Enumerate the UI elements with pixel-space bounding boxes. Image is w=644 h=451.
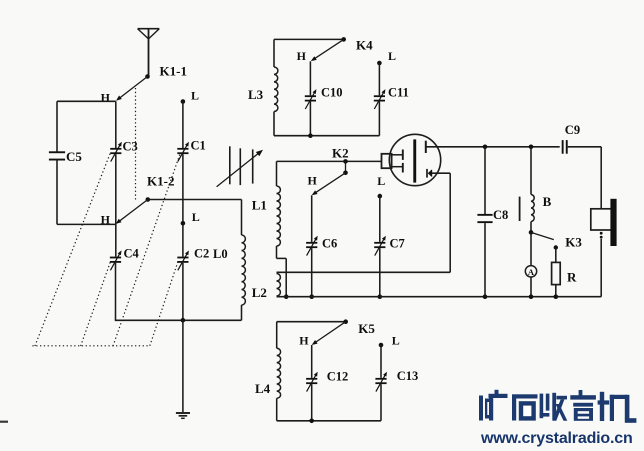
capacitor C9 [562, 140, 564, 154]
switch K4 [341, 37, 346, 42]
svg-text:L4: L4 [255, 381, 271, 396]
wire [277, 321, 346, 323]
watermark char yin [579, 390, 583, 396]
wire [380, 384, 382, 421]
node junction [529, 145, 534, 150]
capacitor C12 [306, 372, 318, 392]
svg-text:H: H [101, 91, 111, 105]
svg-text:C11: C11 [388, 86, 409, 100]
wire [274, 38, 344, 40]
watermark char ji [600, 392, 604, 421]
svg-text:L3: L3 [248, 87, 264, 102]
capacitor C6 [306, 236, 318, 256]
node L [378, 194, 383, 199]
tube grid box [382, 154, 392, 168]
capacitor C1 [177, 142, 189, 162]
antenna [138, 28, 160, 30]
node junction [309, 294, 314, 299]
speaker terminal dots [600, 232, 603, 235]
wire [600, 239, 602, 297]
svg-text:L0: L0 [213, 247, 228, 261]
wire [311, 248, 313, 297]
wire [600, 147, 602, 209]
node junction [554, 294, 559, 299]
speaker [591, 209, 612, 230]
gang dashed diagonal to C3 [35, 153, 111, 347]
capacitor C13 [375, 372, 387, 392]
wire [277, 271, 451, 273]
wire [57, 100, 116, 102]
wire [115, 154, 117, 256]
svg-text:R: R [567, 270, 577, 285]
wire [426, 146, 560, 148]
wire [277, 420, 381, 422]
tube V1 envelope [389, 134, 440, 185]
wire [274, 135, 379, 137]
tube plate pin [425, 141, 427, 153]
switch K5 [343, 319, 348, 324]
wire [378, 63, 380, 95]
switch K3 [531, 232, 554, 239]
resistor R [552, 262, 561, 284]
wire [449, 173, 451, 272]
svg-text:C13: C13 [397, 369, 419, 383]
svg-text:K3: K3 [565, 235, 582, 250]
wire [568, 146, 602, 148]
svg-text:C8: C8 [493, 208, 508, 222]
gang dashed diagonal to C4 [81, 262, 111, 347]
wire [277, 160, 382, 162]
node junction [483, 294, 488, 299]
wire [115, 263, 117, 320]
svg-text:H: H [308, 174, 318, 188]
gang link K1-1/K1-2 dashed [135, 88, 137, 202]
wire [484, 147, 486, 215]
node junction [378, 294, 383, 299]
wire [285, 258, 287, 296]
wire [56, 159, 58, 224]
capacitor C7 [374, 236, 386, 256]
node L bottom [181, 221, 186, 226]
wire [530, 232, 532, 265]
svg-text:L1: L1 [252, 198, 267, 213]
wire [277, 296, 602, 298]
node L [379, 343, 384, 348]
svg-text:K4: K4 [356, 38, 373, 53]
gang dashed horizontal [32, 345, 148, 347]
wire [277, 257, 287, 259]
variable coupling arrow [217, 153, 260, 187]
watermark char shou [540, 394, 544, 419]
wire [56, 101, 58, 152]
watermark char kuang [479, 396, 483, 421]
svg-text:C2: C2 [194, 247, 209, 261]
wire [555, 248, 557, 263]
node junction [308, 133, 313, 138]
svg-text:L: L [377, 174, 385, 188]
node junction [483, 145, 488, 150]
wire [309, 102, 311, 136]
tube filament pin 2 [392, 166, 403, 168]
capacitor C3 [110, 142, 122, 162]
capacitor C11 [374, 89, 386, 109]
svg-text:K5: K5 [358, 321, 375, 336]
wire [379, 196, 381, 242]
tube anode bar [413, 139, 416, 182]
node junction [284, 294, 289, 299]
svg-text:K1-1: K1-1 [160, 63, 187, 78]
wire [432, 172, 450, 174]
svg-text:L: L [192, 210, 200, 224]
wire [182, 154, 184, 256]
meter A [525, 266, 536, 277]
variable coupling lines [229, 146, 231, 184]
wire [115, 319, 242, 321]
svg-text:L: L [191, 89, 199, 103]
node junction [529, 294, 534, 299]
svg-text:B: B [543, 194, 552, 209]
wire [57, 223, 116, 225]
svg-text:A: A [528, 267, 535, 277]
node L [377, 61, 382, 66]
wire [555, 285, 557, 297]
svg-text:www.crystalradio.cn: www.crystalradio.cn [480, 430, 633, 447]
switch K1-1 [145, 74, 150, 79]
wire [182, 263, 184, 320]
capacitor C5 [49, 151, 65, 160]
gang dashed diagonal to C1 [113, 154, 180, 346]
wire [379, 248, 381, 297]
svg-text:L2: L2 [252, 285, 267, 300]
svg-text:L: L [388, 49, 396, 63]
wire [148, 199, 242, 201]
inductor L1 [276, 161, 278, 186]
wire [484, 223, 486, 297]
gang dashed diagonal to C2 [150, 262, 178, 346]
svg-text:H: H [299, 333, 309, 347]
wire [530, 277, 532, 297]
svg-text:C1: C1 [191, 139, 206, 153]
wire [311, 195, 313, 242]
node L top [181, 99, 186, 104]
wire [115, 101, 117, 148]
wire [311, 384, 313, 421]
svg-text:C12: C12 [327, 370, 349, 384]
svg-text:C7: C7 [390, 237, 405, 251]
switch K2 [343, 159, 348, 164]
inductor L3 [273, 39, 275, 67]
svg-text:H: H [101, 212, 111, 226]
inductor L0 [241, 200, 243, 236]
svg-text:C5: C5 [66, 149, 82, 164]
svg-text:H: H [297, 49, 307, 63]
svg-text:K1-2: K1-2 [147, 174, 174, 189]
node junction [181, 318, 186, 323]
tube filament pin 1 [392, 154, 403, 156]
capacitor C4 [110, 250, 122, 270]
wire [182, 320, 184, 412]
wire [182, 102, 184, 149]
node junction [529, 230, 534, 235]
scan edge artifact [0, 421, 8, 423]
svg-text:C9: C9 [565, 123, 580, 137]
capacitor C10 [305, 89, 317, 109]
ground [176, 412, 190, 414]
capacitor C8 [477, 214, 492, 223]
wire [378, 102, 380, 136]
transformer B winding [530, 147, 532, 195]
node junction [309, 419, 314, 424]
switch K1-2 [146, 197, 151, 202]
tube cathode [426, 169, 428, 178]
wire [309, 61, 311, 95]
svg-text:K2: K2 [332, 146, 349, 161]
svg-text:C4: C4 [124, 247, 140, 261]
transformer B core [519, 197, 521, 221]
svg-text:L: L [392, 333, 400, 347]
svg-text:C6: C6 [322, 237, 337, 251]
svg-text:C10: C10 [321, 86, 343, 100]
capacitor C2 [177, 250, 189, 270]
wire [380, 345, 382, 378]
watermark char shi [512, 394, 538, 398]
inductor L4 [276, 322, 278, 349]
wire [311, 345, 313, 378]
inductor L2 [277, 274, 281, 297]
